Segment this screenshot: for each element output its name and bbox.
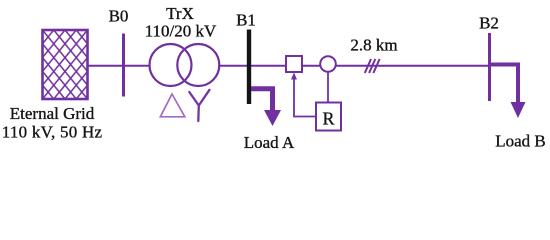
recloser square bbox=[286, 56, 302, 72]
svg-text:B1: B1 bbox=[236, 11, 256, 30]
svg-text:B0: B0 bbox=[109, 7, 129, 26]
external grid source bbox=[43, 30, 88, 99]
svg-text:110/20 kV: 110/20 kV bbox=[145, 22, 217, 41]
transformer TrX bbox=[150, 44, 220, 86]
svg-text:110 kV, 50 Hz: 110 kV, 50 Hz bbox=[2, 123, 103, 142]
svg-text:Load B: Load B bbox=[495, 132, 546, 151]
delta winding symbol bbox=[160, 94, 185, 117]
svg-text:Load A: Load A bbox=[244, 133, 295, 152]
svg-text:Eternal Grid: Eternal Grid bbox=[10, 104, 95, 123]
control arrow from R to recloser bbox=[291, 73, 316, 117]
line length slashes bbox=[365, 59, 380, 73]
busbar B0 bbox=[122, 34, 125, 97]
svg-text:2.8 km: 2.8 km bbox=[350, 36, 397, 55]
svg-text:TrX: TrX bbox=[166, 4, 194, 23]
busbar B2 bbox=[488, 33, 491, 101]
busbar B1 bbox=[247, 30, 251, 105]
relay box R bbox=[316, 103, 341, 131]
wye winding symbol bbox=[189, 90, 209, 121]
Load B feeder arrow bbox=[491, 65, 526, 119]
svg-text:R: R bbox=[322, 109, 334, 129]
svg-text:B2: B2 bbox=[479, 14, 499, 33]
main wire bbox=[88, 65, 490, 67]
Load A feeder arrow bbox=[251, 89, 281, 126]
wire CT to relay bbox=[327, 72, 329, 103]
CT circle bbox=[320, 56, 336, 72]
